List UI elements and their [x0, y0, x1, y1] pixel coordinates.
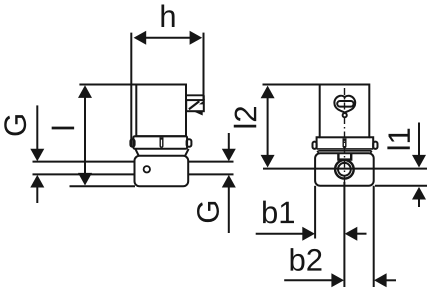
band slot (front)	[343, 138, 346, 147]
G left arrow up	[30, 175, 44, 188]
l top extension line	[79, 84, 136, 86]
l1 arrow up	[412, 187, 426, 200]
body bottom extension right	[375, 185, 427, 187]
valve body (side view)	[135, 156, 189, 187]
connector tab diagonal	[189, 101, 199, 109]
coil body (front view)	[320, 85, 370, 138]
body circle detail	[144, 166, 150, 172]
l arrow down	[78, 173, 92, 186]
center extension line below body	[343, 182, 345, 287]
G right dimension line upper	[228, 133, 230, 149]
b1 dimension tail right	[356, 233, 367, 235]
G left arrow down	[30, 149, 44, 162]
l2 arrow down	[261, 155, 275, 168]
l2 arrow up	[261, 86, 275, 99]
b1 arrow left	[345, 227, 358, 241]
G right dimension line lower	[228, 187, 230, 233]
G right arrow up	[222, 175, 236, 188]
band slot dot (front)	[343, 139, 345, 141]
b1 arrow right	[302, 227, 315, 241]
l1 dimension line upper	[418, 123, 420, 157]
l2 dimension line	[267, 97, 269, 157]
label b1	[263, 201, 294, 224]
h arrow right	[190, 31, 203, 45]
band slot dot	[160, 137, 162, 139]
l arrow up	[78, 85, 92, 98]
right port upper line	[188, 161, 234, 163]
G right arrow down	[222, 149, 236, 162]
label b2	[291, 248, 322, 271]
port circle inner	[338, 163, 351, 176]
G left dimension line lower	[36, 187, 38, 203]
connector tab body	[186, 100, 204, 111]
h left extension line	[130, 33, 132, 147]
right extension line below body	[373, 186, 375, 287]
left port lower line	[33, 173, 136, 175]
band right end cap (front)	[373, 142, 377, 149]
port boss notch	[338, 154, 351, 160]
trapezoid skirt between band and body	[135, 149, 188, 156]
horizontal port centerline	[263, 168, 427, 170]
l2 top extension line	[263, 84, 320, 86]
G left dimension line upper	[36, 105, 38, 149]
DIN connector inner oval	[337, 101, 353, 107]
mounting band (side view)	[133, 136, 187, 149]
label l1	[387, 129, 409, 150]
coil skirt (front view)	[317, 137, 374, 149]
l1 arrow down	[412, 155, 426, 168]
label l	[52, 127, 74, 130]
b2 arrow left	[374, 273, 387, 287]
label h	[161, 5, 174, 27]
coil body (side view)	[136, 85, 186, 137]
trapezoid skirt (front)	[317, 151, 372, 154]
left extension line below body	[314, 186, 316, 239]
band right end cap	[187, 139, 192, 147]
left port upper line	[33, 161, 136, 163]
connector tab corner wedge	[199, 101, 204, 105]
h arrow left	[134, 31, 147, 45]
l1 dimension line lower	[418, 199, 420, 207]
band left end cap (front)	[313, 142, 317, 149]
DIN connector screw dot	[343, 113, 347, 117]
l dimension line	[84, 96, 86, 174]
connector tab bottom foot	[195, 111, 203, 114]
label G	[4, 115, 26, 135]
band slot	[160, 137, 163, 147]
vertical dash-dot centerline	[344, 88, 346, 182]
label l2	[234, 107, 256, 127]
b2 dimension line left	[284, 279, 332, 281]
b2 arrow right	[331, 273, 344, 287]
connector tab right edge between faces	[203, 95, 205, 100]
h dimension line	[144, 37, 192, 39]
port circle outer	[335, 160, 354, 179]
valve body (front view)	[315, 153, 374, 186]
band left end cap	[130, 139, 134, 147]
DIN connector front outline	[334, 96, 355, 113]
skirt bottom band line	[317, 148, 374, 150]
h right extension line	[203, 33, 205, 100]
b2 dimension tail right	[386, 279, 397, 281]
b1 dimension line left	[256, 233, 303, 235]
label G	[197, 202, 219, 222]
right port lower line	[188, 173, 234, 175]
l bottom extension line	[70, 185, 136, 187]
band bottom line (front)	[318, 150, 371, 152]
connector tab top face line	[186, 94, 204, 96]
